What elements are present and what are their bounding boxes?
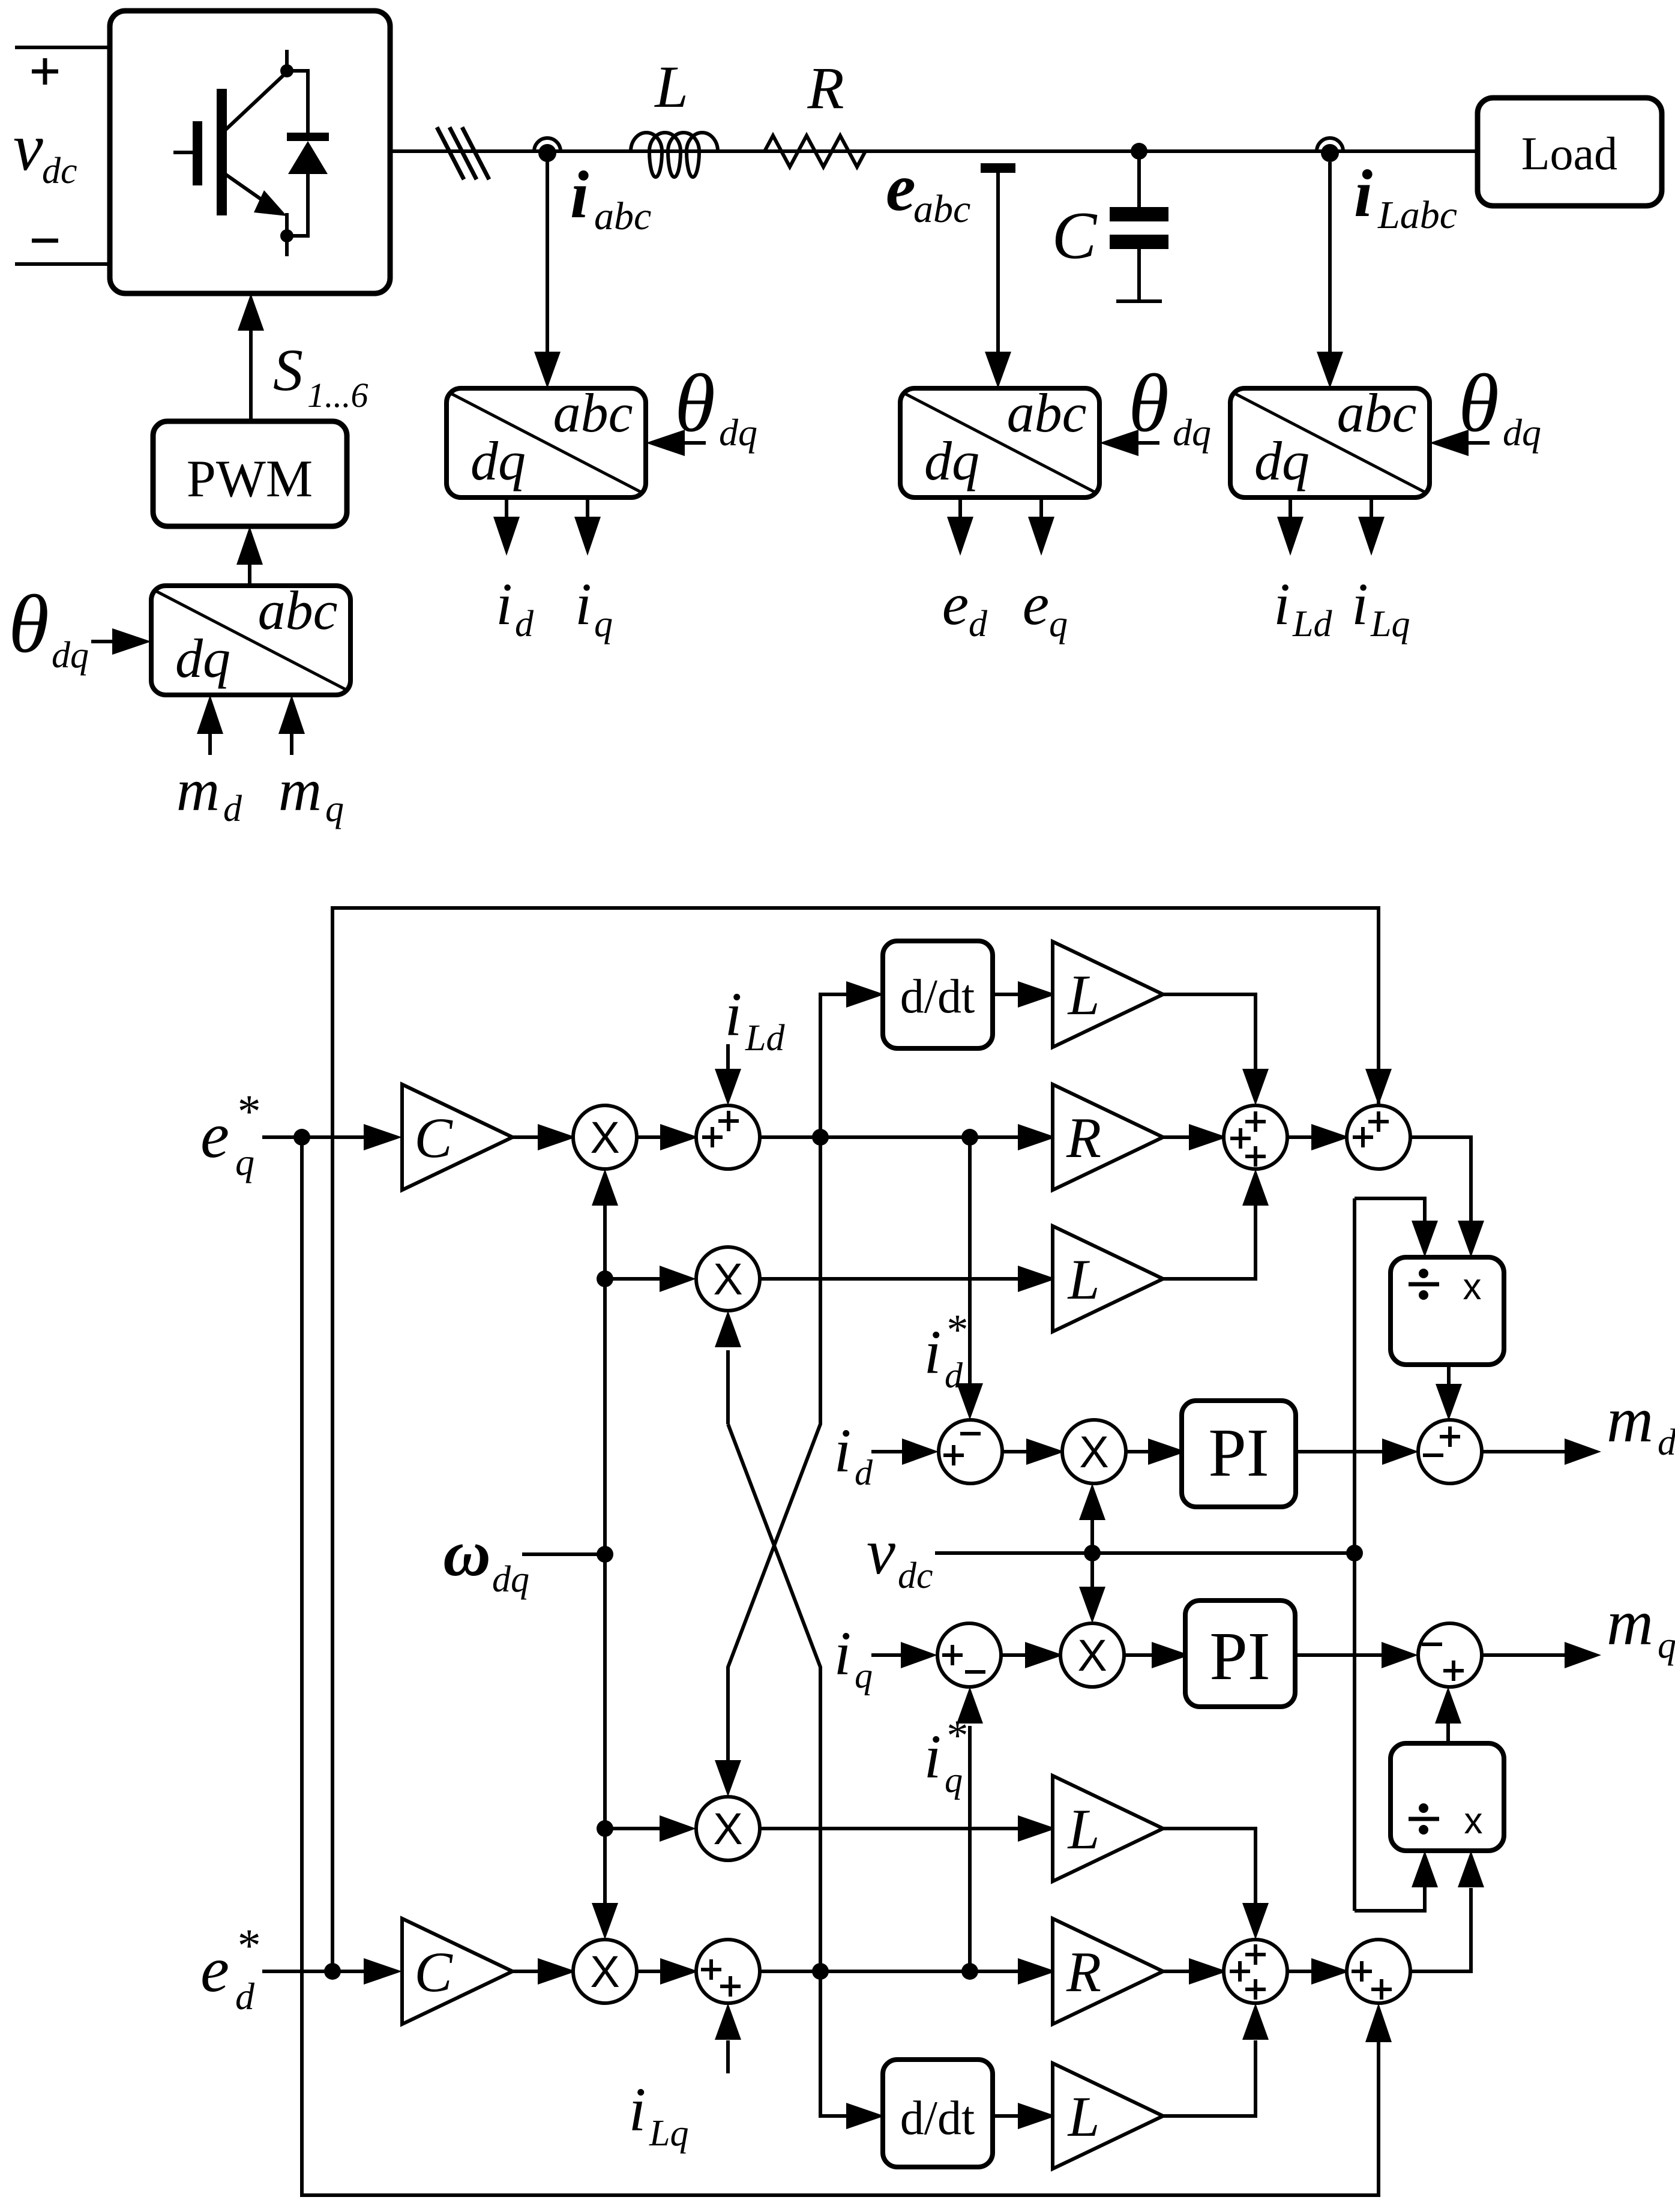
wire iabc to transform xyxy=(534,161,561,388)
wire S7 to X5 xyxy=(1002,1450,1026,1453)
wire iqstar cross line xyxy=(728,1424,820,1971)
svg-text:ω: ω xyxy=(443,1516,491,1590)
wire inverter output bus xyxy=(390,149,1478,153)
svg-text:i: i xyxy=(924,1318,942,1387)
svg-text:d: d xyxy=(855,1453,873,1492)
wire S1 out to R xyxy=(760,1135,1018,1139)
arrow vdc down X6 xyxy=(1079,1553,1105,1623)
IGBT emitter node xyxy=(280,213,293,256)
svg-text:abc: abc xyxy=(258,580,338,641)
wire PI1 to m_d summer xyxy=(1296,1438,1419,1465)
svg-text:e: e xyxy=(942,571,969,637)
transform block U6 dq-abc xyxy=(151,580,350,695)
label C1 xyxy=(1052,199,1098,273)
diode D1 bottom wire xyxy=(287,173,308,236)
svg-text:Load: Load xyxy=(1521,127,1617,179)
arrow mq into U6 xyxy=(278,695,305,755)
arrow S1..6 into inverter xyxy=(238,293,264,421)
label iq out xyxy=(575,571,613,645)
svg-text:e: e xyxy=(200,1100,229,1171)
arrow omega into X1 xyxy=(592,1169,618,1206)
wire S5 to S6 xyxy=(1287,1135,1311,1139)
node iqstar branch xyxy=(812,1963,829,1980)
wire ddt1 to L1gain xyxy=(993,993,1018,996)
summer S2 xyxy=(696,1940,760,2003)
svg-text:x: x xyxy=(1464,1800,1483,1842)
summer S6 xyxy=(1347,1105,1410,1169)
PI block U11 xyxy=(1185,1600,1295,1707)
arrow theta into U3 xyxy=(1099,430,1159,456)
svg-text:i: i xyxy=(496,571,513,637)
svg-text:PWM: PWM xyxy=(187,450,313,508)
wire ddt2 to L4gain xyxy=(993,2114,1018,2118)
svg-text:X: X xyxy=(590,1113,619,1162)
svg-text:dq: dq xyxy=(1503,411,1541,454)
diode D1 top wire xyxy=(287,71,308,133)
arrow cross into X2 xyxy=(715,1311,741,1424)
label iqstar xyxy=(924,1712,966,1800)
wire R2 to S3 xyxy=(1163,1970,1189,1973)
gain L (cross bottom) xyxy=(1053,1776,1163,1881)
svg-text:L: L xyxy=(654,53,688,120)
summer S10 (m_q) xyxy=(1418,1623,1482,1687)
summer S9 (iq compare) xyxy=(937,1623,1001,1687)
divider block U10 (bottom) xyxy=(1391,1743,1504,1851)
svg-text:S: S xyxy=(273,337,303,403)
wire omega label xyxy=(522,1552,605,1556)
svg-text:q: q xyxy=(235,1141,254,1183)
label iLabc xyxy=(1354,157,1457,237)
svg-text:q: q xyxy=(1049,604,1068,645)
arrow id into summer xyxy=(871,1438,939,1465)
svg-text:i: i xyxy=(575,571,592,637)
node omega top xyxy=(597,1270,613,1287)
node iLabc measurement xyxy=(1317,138,1343,162)
label S_1..6 xyxy=(273,337,368,415)
transform block U2 abc-dq (iabc) xyxy=(447,382,646,497)
resistor R1 zigzag xyxy=(765,136,865,167)
inductor L1 xyxy=(631,133,718,177)
wire S3 to S4 xyxy=(1287,1970,1311,1973)
svg-text:i: i xyxy=(725,980,742,1049)
svg-text:X: X xyxy=(1077,1630,1107,1680)
svg-text:d: d xyxy=(1658,1422,1675,1463)
svg-text:*: * xyxy=(235,1085,259,1137)
wire S9 to X6 xyxy=(1001,1653,1025,1657)
IGBT Q1 collector stroke xyxy=(225,73,286,130)
svg-text:PI: PI xyxy=(1208,1414,1269,1491)
svg-text:m: m xyxy=(176,757,220,823)
svg-text:m: m xyxy=(1607,1384,1653,1456)
node omega mid xyxy=(597,1546,613,1563)
wire X3 to L3gain xyxy=(759,1827,1018,1830)
label iLq out xyxy=(1352,571,1410,645)
svg-text:q: q xyxy=(945,1760,963,1800)
wire ed* feedback (left/top) xyxy=(332,908,1392,1971)
summer S5 xyxy=(1224,1105,1287,1169)
svg-text:dq: dq xyxy=(924,430,979,491)
label vdc xyxy=(13,110,77,191)
label eabc xyxy=(886,151,970,231)
svg-text:x: x xyxy=(1463,1266,1482,1308)
svg-text:R: R xyxy=(1066,1106,1101,1170)
multiplier X5 xyxy=(1062,1420,1126,1483)
wire iLabc down xyxy=(1317,162,1343,388)
PWM block U5 xyxy=(153,421,347,526)
node iqstar up branch xyxy=(961,1963,978,1980)
svg-text:L: L xyxy=(1067,1248,1100,1311)
svg-text:C: C xyxy=(414,1940,453,2004)
svg-text:v: v xyxy=(13,110,43,185)
label m_d xyxy=(1607,1384,1675,1463)
node eq* branch xyxy=(293,1129,310,1146)
svg-text:d: d xyxy=(223,789,242,829)
svg-text:abc: abc xyxy=(594,194,651,238)
wire omega column xyxy=(603,1205,607,1904)
gain L (ddt bottom) xyxy=(1053,2063,1163,2169)
svg-text:dq: dq xyxy=(1254,430,1310,491)
wire C to X1 xyxy=(513,1135,538,1139)
wire vdc- to inverter xyxy=(15,262,110,266)
svg-text:d/dt: d/dt xyxy=(900,970,975,1023)
label + (dc positive) xyxy=(32,58,58,85)
svg-text:d: d xyxy=(945,1356,963,1395)
label id xyxy=(834,1416,873,1492)
summer S8 (m_d) xyxy=(1418,1420,1482,1483)
wire node to ddt1 xyxy=(820,994,846,1137)
svg-text:Ld: Ld xyxy=(745,1018,785,1059)
svg-text:abc: abc xyxy=(1337,382,1417,443)
svg-text:e: e xyxy=(1023,571,1049,637)
svg-text:abc: abc xyxy=(553,382,633,443)
svg-text:*: * xyxy=(945,1306,966,1354)
svg-text:i: i xyxy=(1274,571,1290,637)
U2 output id stub xyxy=(493,497,520,556)
wire idstar cross line xyxy=(715,1137,820,1797)
wire S4 to divider2 xyxy=(1410,1851,1484,1971)
svg-text:q: q xyxy=(594,604,613,645)
label iLd out xyxy=(1274,571,1332,645)
label iLd xyxy=(725,980,786,1059)
multiplier X2 xyxy=(696,1247,760,1311)
svg-text:m: m xyxy=(278,757,322,823)
svg-text:dq: dq xyxy=(471,430,526,491)
svg-text:dc: dc xyxy=(898,1555,933,1596)
IGBT Q1 emitter stroke xyxy=(225,174,287,216)
node ed* branch xyxy=(324,1963,341,1980)
IGBT Q1 body bar xyxy=(217,89,227,215)
svg-text:dq: dq xyxy=(175,628,230,689)
label m_q xyxy=(1607,1587,1675,1666)
wire vdc to divider2 xyxy=(1355,1851,1438,1911)
svg-text:dq: dq xyxy=(492,1559,529,1600)
svg-text:R: R xyxy=(1066,1940,1101,2004)
svg-text:i: i xyxy=(924,1722,942,1791)
arrow theta into U2 xyxy=(646,430,706,456)
U2 output iq stub xyxy=(574,497,601,556)
arrow iq into summer xyxy=(871,1642,937,1668)
summer S7 (id compare) xyxy=(939,1420,1002,1483)
wire eabc probe down xyxy=(985,173,1011,388)
multiplier X1 xyxy=(573,1105,637,1169)
wire X2 to L2gain xyxy=(760,1277,1018,1281)
svg-text:θ: θ xyxy=(8,578,49,670)
svg-text:d: d xyxy=(235,1975,255,2018)
svg-text:e: e xyxy=(200,1934,229,2006)
svg-text:1...6: 1...6 xyxy=(307,376,368,415)
wire S2 out to R2 xyxy=(760,1970,1018,1973)
divider block U9 (top) xyxy=(1391,1257,1504,1365)
PI block U8 xyxy=(1182,1401,1296,1507)
arrow theta into U6 xyxy=(91,628,151,655)
wire X4 to S2 xyxy=(637,1970,660,1973)
svg-text:d: d xyxy=(515,604,534,645)
IGBT Q1 gate bar xyxy=(193,121,202,185)
transform block U3 abc-dq (eabc) xyxy=(900,382,1099,497)
IGBT collector node xyxy=(280,50,293,77)
arrow divider2 out xyxy=(1435,1687,1461,1743)
svg-text:abc: abc xyxy=(913,187,970,231)
svg-text:dc: dc xyxy=(42,151,77,191)
gain L (ddt top) xyxy=(1053,942,1163,1047)
svg-text:Lq: Lq xyxy=(649,2113,688,2154)
svg-text:X: X xyxy=(1079,1427,1108,1477)
wire L2gain to S5 xyxy=(1163,1169,1269,1279)
svg-text:i: i xyxy=(834,1416,852,1485)
wire eq* feedback (left/bottom) xyxy=(302,1137,1392,2195)
node idstar branch B xyxy=(961,1129,978,1146)
label eq out xyxy=(1023,571,1068,645)
label L1 xyxy=(654,53,688,120)
label ed out xyxy=(942,571,988,645)
svg-text:Ld: Ld xyxy=(1292,604,1332,645)
svg-text:m: m xyxy=(1607,1587,1653,1659)
svg-text:i: i xyxy=(834,1619,852,1688)
wire vdc xyxy=(935,1551,1355,1555)
svg-text:*: * xyxy=(235,1919,259,1971)
svg-text:abc: abc xyxy=(1007,382,1087,443)
load block xyxy=(1478,98,1662,206)
arrow omega into X4 xyxy=(592,1903,618,1940)
label eq* xyxy=(200,1085,259,1183)
svg-text:C: C xyxy=(1052,199,1098,273)
arrow iLq into S2 xyxy=(715,2003,741,2073)
svg-text:X: X xyxy=(713,1804,742,1854)
summer S3 xyxy=(1224,1940,1287,2003)
svg-text:e: e xyxy=(886,151,916,225)
label omega_dq xyxy=(443,1516,529,1600)
gain L (cross top) xyxy=(1053,1226,1163,1332)
diode D1 triangle xyxy=(288,141,328,174)
svg-text:Labc: Labc xyxy=(1377,193,1457,237)
svg-text:dq: dq xyxy=(719,411,757,454)
svg-text:i: i xyxy=(629,2075,646,2144)
svg-text:dq: dq xyxy=(52,635,89,676)
svg-text:i: i xyxy=(1352,571,1368,637)
wire iqstar up xyxy=(957,1687,983,1971)
label iabc xyxy=(570,158,651,238)
multiplier X6 xyxy=(1060,1623,1124,1687)
label theta_dq (U3) xyxy=(1128,357,1211,454)
diode D1 cathode bar xyxy=(287,133,329,141)
arrow theta into U4 xyxy=(1430,430,1490,456)
inverter U1 box xyxy=(110,11,390,293)
U4 output iLq stub xyxy=(1358,497,1385,556)
svg-text:X: X xyxy=(590,1947,619,1997)
label theta_dq (U2) xyxy=(675,357,757,454)
capacitor C1 xyxy=(1110,151,1168,301)
arrow omega to X3 xyxy=(605,1815,696,1842)
node vdc to X5/X6 xyxy=(1084,1545,1101,1561)
wire L4gain to S3 xyxy=(1163,2003,1269,2116)
arrow divider1 out xyxy=(1436,1365,1462,1420)
gain R (top) xyxy=(1053,1084,1163,1190)
wire X5 to PI1 xyxy=(1126,1450,1148,1453)
svg-text:L: L xyxy=(1067,2085,1100,2148)
IGBT Q1 gate lead xyxy=(173,151,193,154)
probe eabc bar xyxy=(981,163,1015,173)
ddt block U12 xyxy=(883,2060,993,2167)
svg-text:*: * xyxy=(945,1712,966,1760)
wire X6 to PI2 xyxy=(1124,1653,1152,1657)
three-phase slash marks xyxy=(437,127,489,179)
wire ed* input xyxy=(262,1970,364,1973)
svg-text:L: L xyxy=(1067,963,1100,1027)
U3 output eq stub xyxy=(1028,497,1054,556)
wire L1gain to S5 xyxy=(1163,994,1269,1105)
svg-text:v: v xyxy=(867,1516,895,1588)
transform block U4 abc-dq (iLabc) xyxy=(1230,382,1430,497)
svg-text:dq: dq xyxy=(1173,411,1211,454)
svg-text:R: R xyxy=(807,55,844,121)
label vdc (control) xyxy=(867,1516,933,1596)
svg-text:d/dt: d/dt xyxy=(900,2092,975,2145)
wire S6 to divider xyxy=(1410,1137,1484,1257)
wire R to S5 xyxy=(1163,1135,1189,1139)
label idstar xyxy=(924,1306,966,1395)
label iq xyxy=(834,1619,873,1695)
node idstar branch A xyxy=(812,1129,829,1146)
label iLq xyxy=(629,2075,689,2154)
wire C2 to X4 xyxy=(513,1970,538,1973)
wire m_d output xyxy=(1481,1438,1601,1465)
node omega bottom xyxy=(597,1820,613,1837)
svg-text:q: q xyxy=(1658,1625,1675,1666)
wire node to ddt2 xyxy=(820,1971,846,2116)
svg-text:C: C xyxy=(414,1106,453,1170)
gain C (top) xyxy=(402,1084,513,1190)
svg-text:Lq: Lq xyxy=(1370,604,1410,645)
node vdc to dividers xyxy=(1346,1545,1363,1561)
wire vdc+ to inverter xyxy=(15,46,110,49)
svg-text:q: q xyxy=(325,789,344,829)
wire L3gain to S3 xyxy=(1163,1829,1269,1940)
node capacitor junction xyxy=(1131,143,1147,160)
label ed* xyxy=(200,1919,259,2018)
wire vdc to divider1 xyxy=(1355,1198,1438,1257)
gain R (bottom) xyxy=(1053,1919,1163,2024)
svg-text:q: q xyxy=(855,1656,873,1695)
ddt block U7 xyxy=(883,941,993,1048)
U4 output iLd stub xyxy=(1277,497,1304,556)
summer S1 xyxy=(696,1105,760,1169)
gain C (bottom) xyxy=(402,1919,513,2024)
wire PI2 to m_q summer xyxy=(1295,1642,1418,1668)
wire m_q output xyxy=(1482,1642,1601,1668)
arrow iLd into S1 xyxy=(715,1044,741,1105)
wire eq* input xyxy=(262,1135,364,1139)
label R1 xyxy=(807,55,844,121)
wire idstar down xyxy=(957,1137,983,1420)
svg-text:i: i xyxy=(1354,157,1373,231)
label md in xyxy=(176,757,242,829)
svg-text:PI: PI xyxy=(1209,1618,1270,1694)
svg-text:L: L xyxy=(1067,1797,1100,1861)
node iabc measurement xyxy=(534,138,561,162)
label theta_dq (U6) xyxy=(8,578,89,676)
summer S4 xyxy=(1347,1940,1410,2003)
arrow dqabc to PWM xyxy=(236,526,263,586)
label mq in xyxy=(278,757,344,829)
wire vdc divider column xyxy=(1353,1198,1356,1911)
multiplier X3 xyxy=(696,1797,760,1860)
arrow vdc up X5 xyxy=(1079,1483,1105,1553)
label id out xyxy=(496,571,534,645)
label - (dc negative) xyxy=(32,239,58,243)
label theta_dq (U4) xyxy=(1458,357,1541,454)
svg-text:d: d xyxy=(969,604,988,645)
multiplier X4 xyxy=(573,1940,637,2003)
svg-text:i: i xyxy=(570,158,589,232)
wire X1 to S1 xyxy=(637,1135,660,1139)
svg-text:X: X xyxy=(713,1254,742,1304)
U3 output ed stub xyxy=(947,497,973,556)
arrow md into U6 xyxy=(197,695,223,755)
arrow omega to X2 xyxy=(605,1266,696,1292)
